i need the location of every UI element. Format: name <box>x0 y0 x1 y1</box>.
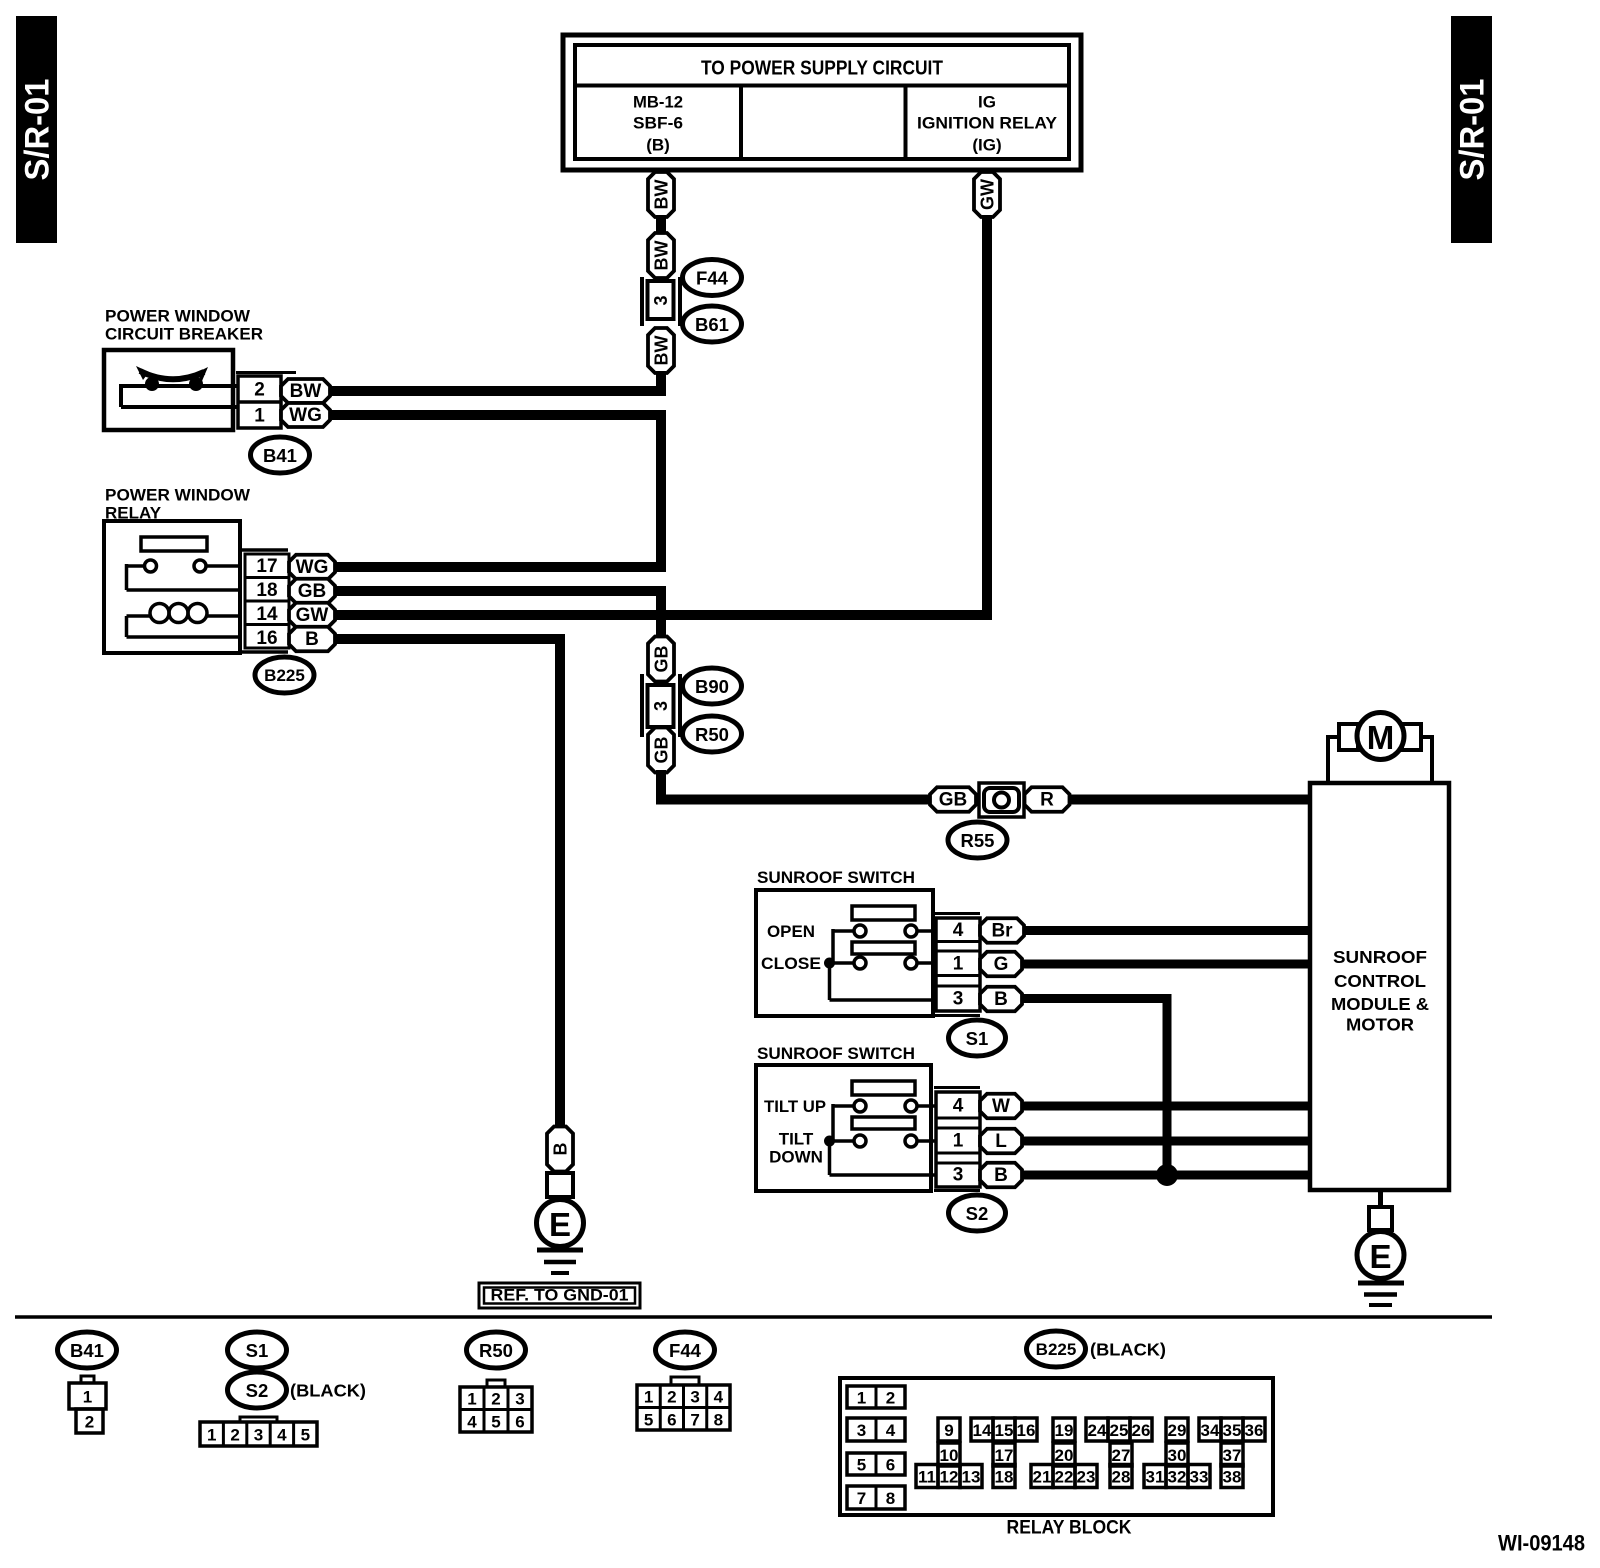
svg-text:BW: BW <box>290 381 322 402</box>
connector S1/S2 pin view <box>240 1417 277 1422</box>
svg-text:8: 8 <box>714 1411 723 1430</box>
S2 common wiring <box>831 1104 835 1141</box>
svg-text:B225: B225 <box>1036 1340 1077 1359</box>
svg-text:R: R <box>1040 790 1054 811</box>
wire WG <box>330 415 661 567</box>
svg-text:15: 15 <box>995 1421 1014 1440</box>
svg-text:9: 9 <box>944 1421 953 1440</box>
connector label BW lower <box>648 328 674 373</box>
svg-text:WI-09148: WI-09148 <box>1498 1531 1585 1556</box>
connector S1 callout <box>949 1020 1006 1056</box>
svg-text:8: 8 <box>886 1489 895 1508</box>
wire GW <box>335 215 987 615</box>
connector R50 view callout <box>467 1332 526 1368</box>
svg-text:4: 4 <box>953 1096 964 1117</box>
wire BW stub <box>656 168 666 174</box>
relay coil <box>150 604 169 623</box>
S2 contact bar upper <box>852 1081 915 1095</box>
svg-text:CONTROL: CONTROL <box>1334 971 1426 991</box>
ref to gnd label <box>479 1283 640 1308</box>
connector B61 callout <box>683 306 742 342</box>
svg-text:21: 21 <box>1033 1468 1052 1487</box>
wire G to module <box>1022 960 1312 969</box>
svg-text:GB: GB <box>298 581 327 602</box>
motor M symbol <box>1357 713 1404 760</box>
svg-text:32: 32 <box>1168 1468 1187 1487</box>
svg-text:6: 6 <box>886 1456 895 1475</box>
svg-text:2: 2 <box>667 1388 676 1407</box>
svg-text:BW: BW <box>652 241 672 271</box>
in-line connector 3 (B90/R50) <box>640 674 644 737</box>
svg-text:6: 6 <box>515 1413 524 1432</box>
svg-text:SBF-6: SBF-6 <box>633 114 683 133</box>
svg-text:(IG): (IG) <box>972 136 1001 155</box>
svg-text:35: 35 <box>1223 1421 1242 1440</box>
svg-text:F44: F44 <box>669 1340 702 1361</box>
svg-text:GW: GW <box>296 605 329 626</box>
svg-text:5: 5 <box>301 1426 310 1445</box>
svg-text:3: 3 <box>254 1426 263 1445</box>
S2 pin label B <box>980 1163 1022 1188</box>
svg-text:GB: GB <box>652 645 672 672</box>
in-line connector R55 body <box>979 783 1024 817</box>
svg-text:26: 26 <box>1132 1421 1151 1440</box>
S1 contact bar lower <box>852 942 915 954</box>
connector label GW <box>974 172 1000 217</box>
relay contact bar <box>141 537 207 551</box>
connector F44 pin view <box>671 1377 699 1385</box>
connector label GB lower <box>648 728 674 773</box>
svg-text:1: 1 <box>953 1131 964 1152</box>
S2 pin shell <box>934 1086 980 1089</box>
S2 pin label W <box>980 1094 1022 1119</box>
svg-text:3: 3 <box>515 1390 524 1409</box>
svg-text:33: 33 <box>1190 1468 1209 1487</box>
connector label BW upper <box>648 172 674 217</box>
svg-text:M: M <box>1367 719 1395 756</box>
svg-text:L: L <box>995 1131 1007 1152</box>
breaker symbol <box>140 371 204 379</box>
svg-text:37: 37 <box>1223 1446 1242 1465</box>
svg-text:4: 4 <box>886 1421 896 1440</box>
svg-text:SUNROOF: SUNROOF <box>1333 947 1427 967</box>
svg-text:14: 14 <box>973 1421 992 1440</box>
module ground connector <box>1369 1207 1392 1230</box>
svg-text:DOWN: DOWN <box>769 1148 823 1167</box>
connector B225 callout <box>255 657 314 693</box>
ground E symbol <box>537 1200 584 1247</box>
S2 pin box <box>936 1092 980 1187</box>
svg-text:1: 1 <box>467 1390 476 1409</box>
connector B225 view callout <box>1027 1331 1086 1367</box>
svg-text:GB: GB <box>939 790 968 811</box>
wire Br to module <box>1024 926 1312 935</box>
svg-text:31: 31 <box>1146 1468 1165 1487</box>
connector label BW middle <box>648 233 674 278</box>
relay pin box <box>245 554 289 648</box>
S1 pin label B <box>980 987 1022 1012</box>
svg-text:G: G <box>994 954 1009 975</box>
wire BW between <box>656 215 666 235</box>
connector S1 view callout <box>228 1332 287 1368</box>
svg-text:29: 29 <box>1168 1421 1187 1440</box>
svg-text:1: 1 <box>254 406 265 427</box>
svg-text:GB: GB <box>652 736 672 763</box>
svg-text:2: 2 <box>886 1389 895 1408</box>
connector label GB upper <box>648 637 674 682</box>
svg-text:S2: S2 <box>966 1203 989 1224</box>
connector label GB at R55 <box>930 787 976 812</box>
svg-text:18: 18 <box>995 1468 1014 1487</box>
svg-text:7: 7 <box>690 1411 699 1430</box>
junction dot B wires <box>1156 1164 1178 1186</box>
svg-text:2: 2 <box>254 380 265 401</box>
module ground stub <box>1378 1190 1383 1207</box>
in-line connector 3 (F44/B61) <box>640 277 644 326</box>
svg-text:3: 3 <box>857 1421 866 1440</box>
svg-text:S2: S2 <box>246 1380 269 1401</box>
svg-text:IGNITION RELAY: IGNITION RELAY <box>917 114 1058 133</box>
wire B from S1 <box>1022 999 1167 1176</box>
svg-text:34: 34 <box>1201 1421 1220 1440</box>
svg-text:38: 38 <box>1223 1468 1242 1487</box>
connector B90 callout <box>683 668 742 704</box>
svg-text:REF. TO GND-01: REF. TO GND-01 <box>491 1287 629 1305</box>
svg-text:17: 17 <box>256 556 277 577</box>
svg-text:7: 7 <box>857 1489 866 1508</box>
breaker pin label WG <box>281 403 330 427</box>
svg-text:19: 19 <box>1055 1421 1074 1440</box>
svg-text:2: 2 <box>85 1413 94 1432</box>
svg-text:(BLACK): (BLACK) <box>290 1381 366 1401</box>
svg-text:B41: B41 <box>263 445 297 466</box>
svg-text:B90: B90 <box>695 676 729 697</box>
ground bars <box>537 1248 583 1253</box>
svg-text:OPEN: OPEN <box>767 922 815 941</box>
svg-text:23: 23 <box>1077 1468 1096 1487</box>
svg-text:20: 20 <box>1055 1446 1074 1465</box>
svg-text:CIRCUIT BREAKER: CIRCUIT BREAKER <box>105 325 263 344</box>
svg-text:S1: S1 <box>966 1028 989 1049</box>
svg-text:11: 11 <box>918 1468 936 1487</box>
S1 pin shell <box>934 912 980 915</box>
svg-text:POWER WINDOW: POWER WINDOW <box>105 486 251 505</box>
svg-text:36: 36 <box>1245 1421 1264 1440</box>
relay pin label WG <box>289 555 335 580</box>
svg-text:POWER WINDOW: POWER WINDOW <box>105 307 251 326</box>
svg-text:27: 27 <box>1112 1446 1131 1465</box>
S1 pin label Br <box>980 918 1024 943</box>
svg-text:B: B <box>994 1165 1008 1186</box>
motor terminals <box>1339 724 1358 750</box>
ground connector box <box>547 1173 573 1197</box>
svg-text:16: 16 <box>256 628 277 649</box>
connector R55 callout <box>948 822 1007 858</box>
S1 pin box <box>936 918 980 1011</box>
svg-text:4: 4 <box>467 1413 477 1432</box>
svg-text:MB-12: MB-12 <box>633 93 683 112</box>
connector F44 callout <box>683 260 742 296</box>
connector B41 view callout <box>58 1332 117 1368</box>
connector R50 callout <box>683 716 742 752</box>
wire R to module <box>1070 795 1312 805</box>
svg-text:S/R-01: S/R-01 <box>19 79 57 181</box>
svg-text:R55: R55 <box>961 830 995 851</box>
relay pin label GB <box>289 579 335 604</box>
connector R50 pin view <box>487 1380 505 1387</box>
svg-text:S/R-01: S/R-01 <box>1454 79 1492 181</box>
wire B to module <box>1022 1171 1312 1180</box>
svg-text:MOTOR: MOTOR <box>1346 1015 1414 1035</box>
svg-text:SUNROOF SWITCH: SUNROOF SWITCH <box>757 1044 915 1063</box>
wire B relay to ground <box>335 639 560 1130</box>
svg-text:2: 2 <box>491 1390 500 1409</box>
connector F44 view callout <box>656 1332 715 1368</box>
connector S2 callout <box>949 1195 1006 1231</box>
module ground bars <box>1358 1281 1404 1286</box>
svg-text:B: B <box>994 989 1008 1010</box>
wire W to module <box>1022 1102 1312 1111</box>
svg-text:28: 28 <box>1112 1468 1131 1487</box>
separator line <box>15 1315 1492 1319</box>
svg-text:SUNROOF SWITCH: SUNROOF SWITCH <box>757 868 915 887</box>
relay pin label GW <box>289 603 335 628</box>
svg-text:30: 30 <box>1168 1446 1187 1465</box>
svg-text:BW: BW <box>652 336 672 366</box>
svg-text:S1: S1 <box>246 1340 269 1361</box>
svg-text:22: 22 <box>1055 1468 1074 1487</box>
sunroof control module box <box>1310 783 1449 1190</box>
svg-text:16: 16 <box>1017 1421 1036 1440</box>
breaker pin label BW <box>281 379 330 403</box>
svg-text:WG: WG <box>289 405 322 426</box>
connector S2 view callout <box>228 1372 287 1408</box>
svg-text:B61: B61 <box>695 314 729 335</box>
svg-text:1: 1 <box>644 1388 653 1407</box>
svg-text:12: 12 <box>940 1468 959 1487</box>
svg-text:CLOSE: CLOSE <box>761 954 821 973</box>
svg-text:TILT UP: TILT UP <box>764 1097 826 1116</box>
svg-text:6: 6 <box>667 1411 676 1430</box>
svg-text:MODULE &: MODULE & <box>1331 994 1429 1014</box>
svg-text:5: 5 <box>491 1413 500 1432</box>
svg-text:R50: R50 <box>695 724 729 745</box>
connector B41 callout <box>251 437 310 473</box>
svg-text:(B): (B) <box>646 136 670 155</box>
svg-text:3: 3 <box>953 1165 964 1186</box>
svg-text:E: E <box>549 1206 571 1243</box>
svg-text:E: E <box>1369 1238 1391 1275</box>
svg-text:BW: BW <box>652 180 672 210</box>
svg-text:B: B <box>551 1143 571 1156</box>
svg-text:TILT: TILT <box>779 1130 814 1149</box>
svg-text:Br: Br <box>991 921 1013 942</box>
relay pin label B <box>289 627 335 652</box>
S1 contact bar upper <box>852 906 915 920</box>
svg-text:5: 5 <box>857 1456 866 1475</box>
svg-text:4: 4 <box>277 1426 287 1445</box>
svg-text:25: 25 <box>1110 1421 1129 1440</box>
svg-text:F44: F44 <box>696 268 729 289</box>
S2 pin label L <box>980 1129 1022 1154</box>
S1 pin label G <box>980 952 1022 977</box>
svg-text:4: 4 <box>953 920 964 941</box>
relay block pins 9-38 <box>938 1418 960 1441</box>
svg-text:5: 5 <box>644 1411 653 1430</box>
svg-text:B: B <box>305 629 319 650</box>
svg-text:W: W <box>992 1096 1010 1117</box>
svg-text:RELAY BLOCK: RELAY BLOCK <box>1007 1518 1132 1539</box>
right page banner S/R-01 <box>1451 16 1492 243</box>
wire GB lower <box>661 770 930 800</box>
wire BW to breaker <box>330 371 661 391</box>
svg-text:R50: R50 <box>479 1340 513 1361</box>
svg-text:B225: B225 <box>264 666 305 685</box>
left page banner S/R-01 <box>16 16 57 243</box>
svg-text:1: 1 <box>207 1426 216 1445</box>
power supply circuit block <box>563 35 1081 170</box>
svg-text:1: 1 <box>953 954 964 975</box>
svg-text:B41: B41 <box>70 1340 104 1361</box>
svg-text:1: 1 <box>857 1389 866 1408</box>
svg-text:3: 3 <box>690 1388 699 1407</box>
svg-text:3: 3 <box>953 989 964 1010</box>
S1 common wiring <box>831 929 835 963</box>
wire L to module <box>1022 1137 1312 1146</box>
relay pin shell <box>240 548 288 552</box>
relay contacts <box>145 560 157 572</box>
svg-text:(BLACK): (BLACK) <box>1090 1340 1166 1360</box>
module ground E symbol <box>1357 1232 1404 1279</box>
svg-text:13: 13 <box>962 1468 981 1487</box>
svg-text:IG: IG <box>978 93 996 112</box>
relay block box <box>840 1378 1273 1515</box>
svg-text:17: 17 <box>995 1446 1014 1465</box>
connector label B ground <box>547 1127 573 1172</box>
breaker pin shell <box>236 371 296 374</box>
svg-text:GW: GW <box>978 179 998 210</box>
svg-text:10: 10 <box>940 1446 959 1465</box>
svg-text:14: 14 <box>256 604 278 625</box>
svg-text:4: 4 <box>714 1388 724 1407</box>
svg-text:1: 1 <box>83 1388 92 1407</box>
relay block pins 1-8 <box>847 1386 905 1408</box>
wire GB upper <box>335 591 661 639</box>
svg-text:TO POWER SUPPLY CIRCUIT: TO POWER SUPPLY CIRCUIT <box>701 58 943 80</box>
svg-text:18: 18 <box>256 580 277 601</box>
S2 contact bar lower <box>852 1117 915 1129</box>
svg-text:24: 24 <box>1088 1421 1107 1440</box>
connector label R at R55 <box>1025 787 1070 812</box>
connector B41 pin view <box>81 1376 94 1383</box>
svg-text:3: 3 <box>651 701 671 711</box>
motor bracket <box>1328 737 1339 783</box>
breaker pin box <box>238 376 281 428</box>
svg-text:WG: WG <box>296 557 329 578</box>
svg-text:2: 2 <box>230 1426 239 1445</box>
svg-text:3: 3 <box>651 295 671 305</box>
